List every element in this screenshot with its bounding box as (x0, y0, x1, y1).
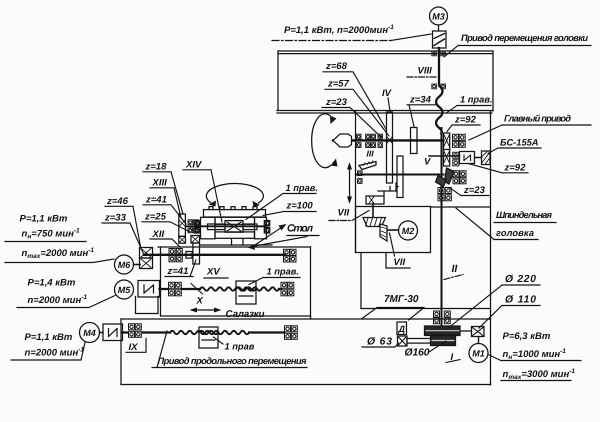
clutch on XIII (179, 236, 186, 243)
leadscrew X nut box (236, 281, 256, 304)
label shpindelnaya golovka (456, 208, 556, 240)
svg-text:XV: XV (206, 267, 220, 278)
svg-text:БС-155А: БС-155А (500, 138, 539, 148)
svg-text:IV: IV (382, 88, 392, 99)
svg-text:z=41: z=41 (145, 195, 167, 206)
svg-text:1 прав.: 1 прав. (267, 267, 299, 277)
motor M3 shaft stub (438, 25, 440, 31)
svg-text:Салазки: Салазки (226, 309, 265, 320)
label z100 (263, 201, 316, 216)
svg-text:Р=6,3 кВт: Р=6,3 кВт (503, 331, 551, 342)
svg-text:z=100: z=100 (286, 201, 314, 212)
svg-text:XIV: XIV (185, 160, 202, 171)
label salazki (226, 309, 265, 320)
svg-text:Стол: Стол (287, 223, 313, 235)
bevel gear pair on shaft II (445, 168, 455, 184)
label IV (382, 88, 392, 111)
table lower plate (215, 232, 255, 238)
clutch box XIV (191, 236, 200, 244)
gear on XV small (186, 252, 192, 259)
svg-text:z=34: z=34 (409, 95, 432, 106)
column bottom line (361, 308, 491, 310)
svg-text:z=41: z=41 (167, 266, 189, 277)
worm gear box (225, 221, 243, 233)
motor M2 (399, 221, 418, 240)
long shaft XV (144, 254, 285, 256)
machine right outline edge (490, 111, 492, 385)
table bottom line (200, 244, 272, 246)
motor M5 (115, 280, 134, 299)
saddle box right edge (310, 247, 312, 319)
motor M2 shaft link (387, 229, 399, 231)
table motion arrow down-left (248, 237, 308, 251)
svg-text:XIII: XIII (152, 178, 168, 189)
saddle box left edge (160, 247, 162, 316)
svg-text:z=33: z=33 (104, 213, 127, 224)
clutch small on XIII top (179, 221, 184, 227)
spindle head box left edge (355, 111, 357, 253)
label D63 (362, 337, 399, 348)
svg-text:Р=1,4 кВт: Р=1,4 кВт (28, 278, 76, 289)
leadscrew IX (123, 331, 285, 334)
svg-text:Р=1,1 кВт: Р=1,1 кВт (25, 332, 73, 343)
vertical feed shaft VII (372, 204, 374, 223)
svg-text:Ø 220: Ø 220 (505, 274, 536, 285)
label I (446, 352, 460, 363)
svg-text:z=57: z=57 (327, 79, 350, 90)
label z41 upper (143, 195, 186, 225)
motor M3 (430, 7, 448, 25)
table top toothed bar (204, 207, 266, 217)
svg-text:z=23: z=23 (463, 185, 486, 196)
vertical shaft II (441, 128, 443, 331)
spindle rotation arrow (312, 114, 338, 168)
spindle nose cone (333, 134, 352, 147)
svg-text:IX: IX (129, 342, 139, 353)
svg-text:М3: М3 (432, 12, 445, 22)
BS-155A motor box (482, 151, 491, 165)
label D160 (405, 341, 447, 359)
shaft VIII upper section (438, 48, 440, 84)
label 1 prav table (246, 183, 318, 220)
bed box bottom (121, 384, 491, 386)
motor M1 shaft stub (478, 337, 480, 344)
label z34 (407, 95, 436, 127)
table motion arrow up-right (255, 224, 287, 245)
head-drive housing right edge (492, 51, 494, 111)
shaft VIII lower bearings (432, 84, 446, 89)
label II (444, 263, 463, 280)
shaft II lower bearings (434, 311, 451, 324)
feed gearbox stepped block (378, 183, 398, 196)
saddle box bottom (161, 315, 311, 317)
spindle bearings group (356, 134, 382, 147)
screw X bearings right (281, 282, 294, 296)
label z25 (142, 212, 190, 233)
leadscrew X (160, 287, 282, 290)
M2 feed unit box (356, 207, 431, 253)
svg-text:z=18: z=18 (145, 162, 168, 173)
screw X bearings left (169, 282, 182, 296)
label z68 (323, 61, 386, 129)
svg-text:1 прав.: 1 прав. (286, 183, 318, 193)
svg-text:VII: VII (338, 208, 350, 219)
XI label bracket box (136, 297, 159, 314)
motor M4 (80, 323, 100, 343)
shaft II upper bearings (438, 188, 451, 201)
cluster bearings (188, 220, 198, 233)
label D220 (447, 274, 540, 329)
label BS-155A (488, 138, 541, 154)
spindle head box bottom line (431, 206, 491, 208)
label z92 upper (447, 115, 480, 132)
V drive coupling box (460, 152, 475, 164)
feed gearbox clutch box (366, 196, 384, 204)
motor M4 coupling box (103, 324, 123, 341)
z92 shaft bearings (453, 134, 466, 147)
label z33 (102, 213, 144, 256)
label z18 (143, 162, 183, 215)
svg-text:X: X (196, 296, 204, 307)
pulley 63 to 160 shaft sleeve (407, 339, 431, 344)
svg-text:z=25: z=25 (144, 212, 167, 223)
svg-text:головка: головка (496, 228, 534, 238)
svg-text:n=2000 мин-1: n=2000 мин-1 (28, 294, 88, 306)
belt line pulley 220 to pulley 110 (460, 330, 472, 332)
svg-text:n=2000 мин-1: n=2000 мин-1 (25, 347, 85, 359)
svg-text:V: V (424, 157, 431, 168)
shaft VIII upper bearings (432, 51, 446, 56)
motor M4 shaft stub (100, 332, 104, 334)
svg-text:1 прав.: 1 прав. (460, 95, 492, 105)
table left cheek (201, 217, 216, 239)
shaft VIII screw wavy section (436, 86, 443, 134)
svg-text:Р=1,1 кВт, n=2000мин-1: Р=1,1 кВт, n=2000мин-1 (284, 24, 394, 36)
label 1 prav X (249, 267, 300, 285)
label P M4 power (11, 332, 85, 360)
gear shaft XIII bar (179, 214, 186, 236)
motor M6 (115, 255, 134, 274)
svg-text:Ø 63: Ø 63 (367, 337, 392, 348)
worm right bearing (264, 221, 269, 234)
label XV (204, 267, 228, 279)
svg-text:1 прав: 1 прав (225, 342, 255, 352)
pulley D63 (398, 336, 408, 346)
svg-text:z=92: z=92 (454, 115, 477, 126)
gear z34 (411, 128, 418, 154)
label P M5 power (17, 278, 115, 308)
label z57 (325, 79, 389, 137)
long pinion gear IV (387, 112, 393, 183)
screw IX bearings right (285, 326, 298, 340)
leadscrew IX nut box (199, 327, 218, 348)
clutch column on shaft II (444, 133, 450, 166)
svg-text:М4: М4 (83, 328, 96, 338)
label VII left (329, 208, 369, 221)
label X (191, 284, 204, 307)
intermediate shaft below spindle (356, 174, 444, 176)
label VII lower (390, 233, 406, 268)
svg-text:z=46: z=46 (106, 196, 129, 207)
svg-text:Ø 110: Ø 110 (505, 295, 536, 306)
svg-text:Д: Д (397, 324, 405, 334)
svg-text:Шпиндельная: Шпиндельная (496, 210, 553, 220)
label 7MG-30 (362, 294, 424, 320)
label III (367, 149, 375, 159)
table center post (232, 239, 244, 245)
svg-text:Р=1,1 кВт: Р=1,1 кВт (20, 214, 68, 225)
pulley D110 (472, 327, 485, 337)
svg-text:М5: М5 (118, 285, 131, 295)
label P M6 power (5, 214, 114, 263)
label z23 upper (322, 97, 381, 137)
svg-text:z=68: z=68 (325, 61, 348, 72)
sliding gear bar (397, 156, 403, 198)
svg-text:z=23: z=23 (325, 97, 348, 108)
saddle box top (158, 246, 311, 248)
spindle shaft III (333, 139, 444, 141)
svg-text:М2: М2 (402, 226, 415, 236)
label 1 prav head screw (447, 95, 492, 113)
label P M1 power (489, 331, 581, 381)
VII label bracket (386, 253, 410, 269)
bed box top (121, 318, 491, 320)
label z92 lower (468, 163, 528, 174)
label XIV (183, 160, 222, 223)
worm shaft XIV (186, 225, 265, 227)
svg-text:Привод перемещения головки: Привод перемещения головки (461, 33, 588, 43)
hatched rack element (359, 161, 376, 170)
label D110 (479, 295, 540, 329)
svg-text:nн=750 мин-1: nн=750 мин-1 (22, 228, 81, 241)
svg-text:М1: М1 (472, 349, 485, 359)
svg-text:z=92: z=92 (504, 163, 527, 174)
XV right end bearings (284, 249, 297, 262)
label IX (126, 339, 146, 354)
label XII (150, 229, 180, 247)
label privod peremeshcheniya golovki (444, 33, 591, 57)
table inner bar (215, 217, 255, 224)
svg-text:Ø160: Ø160 (405, 348, 430, 359)
label P M3 power (272, 24, 431, 41)
salazki motion double arrow (190, 308, 222, 313)
M6 gear clutch stack (140, 248, 153, 269)
table rotation ellipse arrow (206, 184, 263, 207)
encoder D box (397, 322, 407, 335)
head-drive housing box top double line (278, 51, 493, 54)
bed box left edge (120, 319, 122, 385)
label z46 (105, 196, 141, 249)
worm shaft sleeves (208, 224, 258, 230)
svg-text:VIII: VIII (418, 66, 433, 77)
svg-text:III: III (367, 149, 375, 159)
svg-text:XII: XII (152, 229, 165, 240)
svg-text:М6: М6 (118, 260, 131, 270)
svg-text:VII: VII (394, 257, 406, 268)
svg-text:Главный привод: Главный привод (504, 114, 571, 124)
worm left bearing (195, 221, 200, 234)
sliding gear z41 on XV (193, 243, 200, 264)
head-drive housing left edge (277, 51, 279, 111)
motor M1 (469, 344, 488, 363)
motor M3 brake coupling box (433, 31, 447, 48)
svg-text:nн=1000 мин-1: nн=1000 мин-1 (503, 348, 567, 361)
label V (424, 157, 431, 168)
bevel output bearings (453, 171, 466, 184)
svg-text:Привод продольного перемещения: Привод продольного перемещения (158, 356, 308, 366)
intermediate shaft bearings (358, 171, 363, 184)
label z41 lower (165, 260, 196, 277)
coupling x on spindle (387, 137, 392, 143)
label 1 prav IX (214, 337, 255, 352)
pulley D220 (425, 326, 461, 336)
label glavny privod (469, 114, 591, 141)
motor M6 shaft stub (134, 264, 141, 266)
motor M5 coupling box (138, 281, 160, 298)
table right cheek (255, 217, 267, 239)
column left edge (360, 253, 362, 309)
bevel gear on feed shaft upper (363, 218, 386, 227)
label privod prodolnogo (152, 331, 307, 368)
label XIII (150, 178, 181, 219)
head-drive housing bottom double line (277, 111, 492, 114)
screw IX bearings left (129, 324, 142, 338)
label z23 lower (450, 185, 489, 196)
shaft XV left bearings (169, 249, 182, 262)
bevel gear to M2 (380, 224, 387, 241)
shaft V (429, 156, 482, 158)
shaft V bearings (453, 152, 459, 166)
svg-text:7МГ-30: 7МГ-30 (384, 294, 419, 305)
label VIII (407, 66, 437, 78)
pulley D160 (431, 336, 456, 346)
head vertical travel arrow (347, 162, 352, 204)
label stol (287, 223, 319, 236)
